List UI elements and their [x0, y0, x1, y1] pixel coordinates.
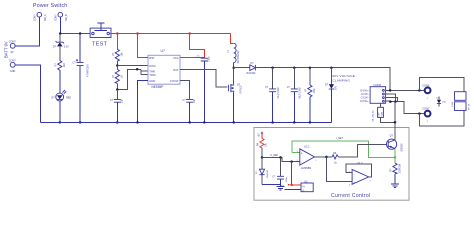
zener D1	[53, 41, 69, 49]
green net I_SET	[292, 141, 395, 163]
svg-text:2k2: 2k2	[63, 62, 66, 67]
wire node to D3	[234, 67, 250, 69]
svg-text:SW_B: SW_B	[66, 14, 68, 21]
ground sym 2	[391, 184, 399, 188]
junction	[279, 156, 282, 159]
capacitor C4	[182, 98, 196, 103]
connector CON7	[422, 107, 430, 124]
junction	[389, 89, 392, 92]
svg-text:CON?: CON?	[9, 40, 17, 43]
junction red	[116, 32, 119, 35]
wire HV rail	[255, 68, 390, 91]
transistor Q2 2N3906	[387, 135, 404, 152]
svg-text:RED: RED	[66, 97, 71, 100]
wire red 9V rail	[109, 33, 230, 35]
wire R7 to gnd	[394, 174, 396, 184]
connector BATT GND	[9, 59, 17, 73]
connector CON6	[422, 83, 430, 100]
wire B1	[381, 103, 396, 122]
wire red to inductor	[231, 34, 234, 44]
junction	[59, 32, 62, 35]
resistor R1	[55, 60, 66, 70]
svg-text:C2W: C2W	[382, 112, 384, 117]
svg-text:100n: 100n	[208, 56, 211, 62]
svg-text:+9V: +9V	[258, 133, 260, 138]
wire top loop	[419, 77, 464, 91]
wire R3 bottom to C2	[116, 90, 118, 100]
wire R3 top	[116, 66, 118, 70]
svg-text:RST: RST	[149, 56, 155, 60]
svg-text:I_SET: I_SET	[336, 137, 344, 140]
wire pin2	[386, 94, 396, 102]
capacitor C6	[287, 68, 302, 124]
svg-text:3.3V: 3.3V	[64, 46, 69, 49]
capacitor C1 electrolytic	[73, 59, 90, 77]
svg-text:VCC: VCC	[173, 56, 179, 60]
svg-text:CON?: CON?	[56, 14, 58, 21]
svg-text:+: +	[353, 181, 355, 185]
resistor R7	[391, 163, 402, 174]
svg-text:+: +	[301, 151, 303, 155]
current control box	[254, 128, 409, 201]
sounder LS1	[452, 92, 471, 111]
ground sym	[277, 185, 285, 191]
svg-text:1M: 1M	[120, 75, 123, 78]
junction	[325, 156, 328, 159]
svg-text:V-: V-	[302, 190, 304, 192]
connector SW A	[35, 12, 47, 21]
jumper box B1	[378, 107, 384, 117]
junction	[203, 121, 206, 124]
svg-text:SIL-100-04: SIL-100-04	[372, 110, 374, 122]
zener D1 branch wire	[59, 34, 61, 61]
capacitor C3 100n	[197, 56, 211, 63]
wire red to R2	[116, 34, 118, 50]
svg-text:5: 5	[349, 184, 350, 186]
diode D3 MUR160	[247, 62, 257, 75]
svg-text:100R/2W: 100R/2W	[399, 163, 401, 173]
wire pin4	[386, 100, 391, 102]
wire R4 to UREF node	[261, 148, 263, 158]
wire to U2 supply	[291, 162, 293, 185]
junction	[418, 89, 421, 92]
junction	[389, 100, 392, 103]
wire battery plus to switch	[15, 17, 39, 46]
connector SW B	[56, 12, 68, 21]
junction	[271, 66, 274, 69]
wire C2 to bus	[116, 102, 118, 122]
svg-text:OVW+: OVW+	[360, 88, 369, 92]
svg-text:90V: 90V	[336, 85, 338, 90]
svg-text:OCW+: OCW+	[360, 99, 369, 103]
svg-text:CON?: CON?	[35, 14, 37, 21]
op-amp U2.1	[297, 145, 317, 170]
wire L1 to node	[233, 63, 235, 68]
svg-text:THR: THR	[149, 70, 155, 74]
wire DISC	[117, 65, 148, 67]
wire switch out down	[59, 17, 61, 34]
wire collector	[394, 102, 396, 140]
junction	[116, 121, 119, 124]
svg-text:SW_A: SW_A	[44, 14, 47, 21]
svg-text:GND: GND	[10, 70, 16, 73]
svg-text:U2: U2	[304, 179, 308, 183]
junction green	[394, 156, 397, 159]
wire source to bus	[233, 93, 235, 123]
svg-text:CON6: CON6	[422, 83, 430, 87]
svg-text:+9V: +9V	[279, 184, 284, 188]
wire U2.2 plus input	[326, 157, 352, 182]
wire C1 branch	[79, 34, 81, 123]
wire to CON7	[390, 102, 423, 114]
svg-text:U?: U?	[161, 49, 165, 53]
svg-text:MT-26: MT-26	[469, 103, 471, 110]
svg-text:P401: P401	[452, 101, 454, 107]
wire OUT to gate	[180, 69, 228, 86]
junction red	[188, 32, 191, 35]
svg-text:TEST: TEST	[92, 42, 108, 48]
connector CON5	[360, 83, 386, 122]
svg-text:10n: 10n	[193, 98, 196, 103]
wire U2.1 out	[315, 156, 333, 158]
junction	[188, 121, 191, 124]
svg-text:-: -	[353, 172, 354, 176]
wire R6 to base	[338, 144, 386, 157]
wire THR TRIG net	[117, 69, 148, 89]
diode D5	[437, 97, 447, 107]
LED D2	[52, 90, 72, 101]
svg-text:OVW-: OVW-	[361, 92, 369, 96]
wire CVOLT to C4	[180, 80, 190, 99]
resistor R3	[112, 69, 123, 83]
diode D6 1N4148	[256, 157, 269, 184]
junction	[79, 32, 82, 35]
op IC U1 NE555	[148, 49, 180, 89]
resistor R5	[305, 68, 316, 124]
junction	[136, 121, 139, 124]
wire R1 to LED	[59, 70, 61, 93]
svg-text:U_REF: U_REF	[270, 154, 278, 157]
svg-text:3: 3	[297, 151, 298, 153]
junction	[261, 156, 264, 159]
resistor R2	[112, 49, 123, 61]
svg-text:TRIG: TRIG	[149, 73, 155, 77]
svg-text:4mH/6ohm: 4mH/6ohm	[237, 50, 240, 63]
junction	[232, 121, 235, 124]
wire LED to bus	[59, 101, 61, 123]
svg-text:68J/100V: 68J/100V	[299, 87, 302, 99]
svg-text:OUT: OUT	[173, 68, 179, 72]
svg-text:CON?: CON?	[9, 59, 17, 62]
junction red	[290, 184, 293, 187]
resistor R4	[257, 138, 267, 148]
wire red +9V to U2	[292, 184, 301, 186]
svg-text:RGP160: RGP160	[247, 73, 257, 75]
transistor Q1 mosfet	[229, 68, 243, 94]
junction red	[136, 32, 139, 35]
junction	[232, 66, 235, 69]
zener D4 90V	[325, 68, 338, 123]
svg-text:10n: 10n	[121, 98, 124, 103]
svg-text:CON5: CON5	[374, 83, 382, 87]
svg-text:2: 2	[297, 160, 298, 162]
svg-text:CLAMPING: CLAMPING	[332, 78, 350, 82]
svg-text:100n: 100n	[286, 176, 288, 182]
wire red VCC	[180, 34, 204, 59]
svg-text:BATT 9V: BATT 9V	[4, 41, 9, 58]
wire bottom loop	[419, 111, 464, 126]
inductor L1	[227, 43, 240, 63]
wire C4 to bus	[189, 102, 191, 122]
svg-text:9V: 9V	[11, 51, 14, 54]
svg-text:NE555P: NE555P	[152, 85, 164, 89]
svg-text:Power Switch: Power Switch	[33, 3, 67, 9]
junction	[330, 66, 333, 69]
svg-text:GND: GND	[149, 79, 155, 83]
svg-text:IRF510: IRF510	[240, 85, 243, 94]
svg-text:CON7: CON7	[422, 107, 430, 111]
svg-text:CVOLT: CVOLT	[170, 79, 179, 83]
supply +9V arrow R4	[258, 131, 263, 138]
wire GND pin	[138, 80, 149, 122]
wire switched 9V to TEST	[60, 33, 90, 35]
wire red RST	[138, 34, 149, 58]
junction	[394, 100, 397, 103]
svg-text:7: 7	[370, 181, 371, 183]
junction	[418, 112, 421, 115]
wire U2.2 feedback	[346, 164, 372, 177]
wire R2 to node	[116, 61, 118, 65]
svg-text:-: -	[301, 161, 302, 165]
svg-text:1: 1	[316, 160, 317, 162]
wire pin3	[386, 98, 398, 102]
svg-text:C2V: C2V	[379, 112, 381, 117]
wire C3 to bus	[203, 61, 205, 122]
junction	[59, 121, 62, 124]
gnd bus wire	[41, 121, 332, 123]
junction	[116, 88, 119, 91]
op-amp U2.2	[349, 161, 371, 187]
svg-text:DISC: DISC	[149, 64, 155, 68]
capacitor C5	[265, 68, 280, 124]
label +9V red	[279, 184, 290, 188]
junction	[116, 64, 119, 67]
wire battery gnd to bus	[15, 65, 40, 123]
junction	[394, 121, 397, 124]
svg-text:47MF/25V: 47MF/25V	[86, 64, 90, 77]
capacitor C7	[272, 157, 288, 184]
svg-text:2N3906: 2N3906	[401, 143, 403, 152]
wire V- blue	[285, 188, 302, 190]
junction	[309, 66, 312, 69]
svg-text:1N4148: 1N4148	[267, 170, 269, 178]
ic U2 supply box	[301, 179, 313, 192]
svg-text:100k: 100k	[314, 88, 316, 94]
connector BATT+	[9, 40, 17, 54]
svg-text:U2.1: U2.1	[304, 145, 310, 149]
capacitor C2	[110, 98, 124, 103]
svg-text:OCW-: OCW-	[361, 96, 369, 100]
svg-text:22J/100V: 22J/100V	[277, 87, 280, 99]
junction	[293, 66, 296, 69]
svg-text:LM358N: LM358N	[301, 166, 311, 170]
junction	[79, 121, 82, 124]
wire U_REF	[262, 157, 300, 161]
junction	[136, 68, 139, 71]
junction	[290, 160, 293, 163]
svg-text:Current Control: Current Control	[331, 193, 370, 199]
wire pin1 to CON6	[386, 89, 424, 91]
wire gnd link	[262, 184, 281, 186]
resistor R6	[332, 152, 338, 164]
pushbutton TEST	[90, 23, 111, 47]
